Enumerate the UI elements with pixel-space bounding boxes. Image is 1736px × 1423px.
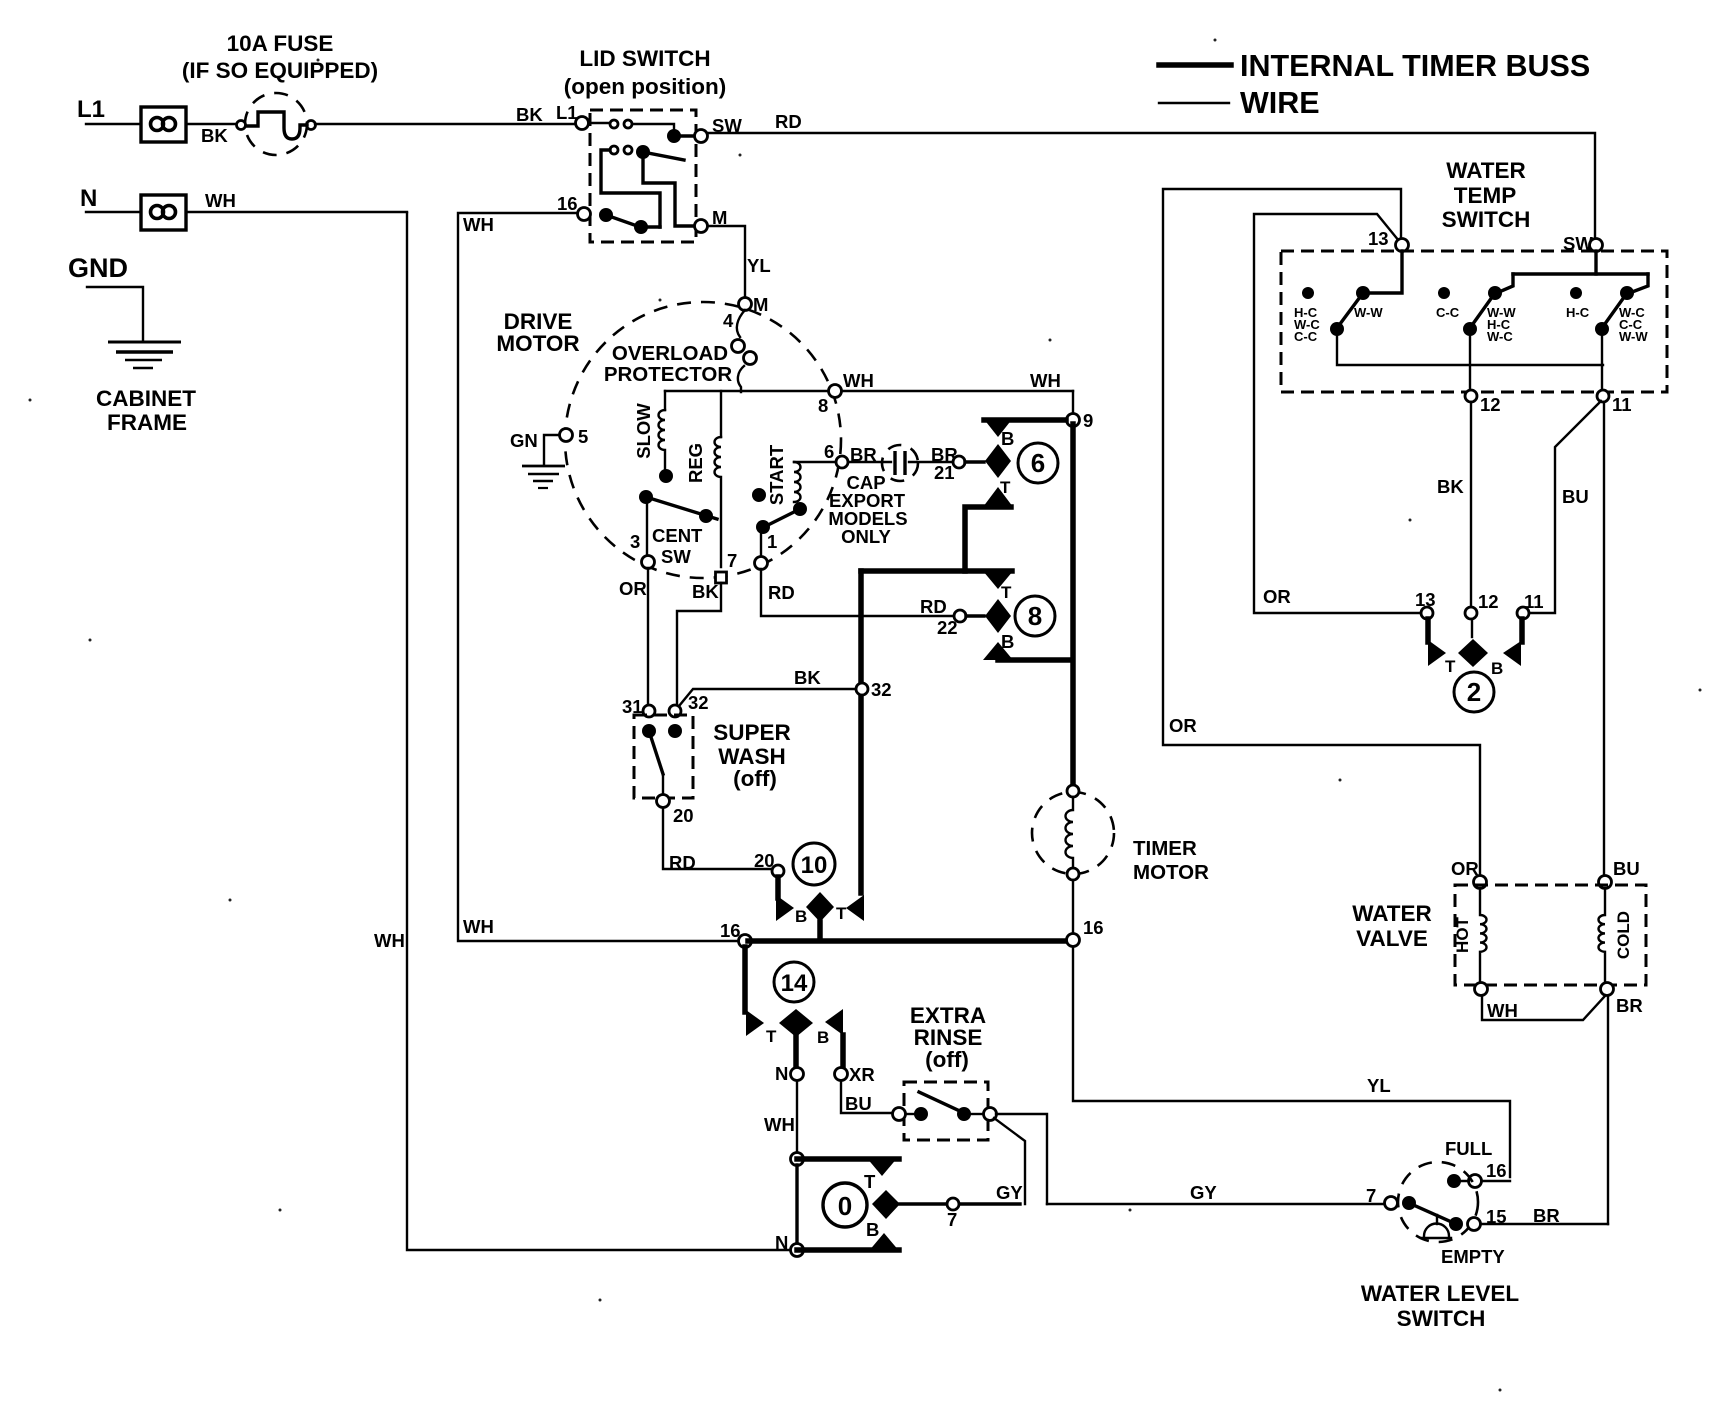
node 8 [829, 385, 842, 398]
svg-text:VALVE: VALVE [1356, 926, 1428, 951]
svg-text:W-W: W-W [1354, 305, 1383, 320]
wire BK to lid switch [315, 123, 576, 125]
svg-text:WH: WH [463, 214, 494, 235]
water valve box [1455, 885, 1646, 985]
svg-text:14: 14 [781, 970, 808, 997]
temp switch section 1 [1302, 286, 1603, 365]
solenoid COLD [1599, 888, 1614, 996]
svg-text:CABINET: CABINET [96, 386, 196, 411]
node 7 [947, 1198, 959, 1210]
node M terminal [695, 220, 708, 233]
temp switch section 3 [1570, 286, 1634, 390]
node 16 left [739, 935, 752, 948]
svg-text:RD: RD [920, 596, 947, 617]
wire to contact 6 [965, 460, 984, 463]
svg-text:16: 16 [1083, 917, 1104, 938]
svg-text:W-W: W-W [1619, 329, 1648, 344]
wire BU 11 to contact 2 [1529, 401, 1601, 613]
svg-text:BK: BK [1437, 476, 1464, 497]
wire WH corner to node 9 [1072, 391, 1074, 414]
wire BK 12 [1470, 402, 1472, 607]
contact 14 circle [774, 962, 814, 1002]
svg-text:BR: BR [1616, 995, 1643, 1016]
wire L1 lead [86, 123, 241, 125]
svg-text:L1: L1 [556, 102, 578, 123]
lid switch contact row 1 [589, 120, 694, 143]
node 16 terminal [578, 208, 591, 221]
svg-text:T: T [766, 1027, 777, 1046]
node 13 temp [1396, 239, 1409, 252]
lid switch box [590, 110, 696, 242]
svg-text:T: T [1445, 657, 1456, 676]
svg-text:BK: BK [201, 125, 228, 146]
svg-text:WATER: WATER [1352, 901, 1432, 926]
svg-text:L1: L1 [77, 96, 105, 123]
node BU valve [1599, 876, 1612, 889]
svg-text:N: N [775, 1232, 788, 1253]
svg-text:YL: YL [747, 255, 771, 276]
drive motor boundary circle [565, 302, 841, 578]
wire RD from start [761, 569, 954, 616]
svg-text:B: B [817, 1028, 829, 1047]
internal timer buss bottom [748, 938, 1073, 944]
winding START [793, 462, 837, 516]
wire OR inner loop [1254, 214, 1421, 613]
svg-text:T: T [1000, 478, 1011, 497]
svg-text:11: 11 [1612, 394, 1632, 415]
wire BK 32 diagonal [679, 689, 856, 706]
timer contact 14 [745, 947, 843, 1068]
svg-text:WH: WH [374, 930, 405, 951]
svg-text:32: 32 [871, 679, 892, 700]
svg-text:N: N [775, 1063, 788, 1084]
wire WH second vertical [458, 213, 739, 941]
wire XR to BU [841, 1081, 893, 1113]
winding REG [715, 391, 722, 567]
wire BU 11 to valve [1603, 402, 1605, 876]
wire YL to node 16 [1482, 1180, 1510, 1182]
svg-text:WH: WH [205, 190, 236, 211]
svg-text:RD: RD [775, 111, 802, 132]
svg-text:WH: WH [463, 916, 494, 937]
svg-text:6: 6 [1031, 448, 1045, 478]
svg-text:(off): (off) [925, 1047, 969, 1072]
node SW terminal [695, 130, 708, 143]
svg-text:OR: OR [1169, 715, 1197, 736]
overload protector [732, 310, 757, 392]
water level switch contacts [1402, 1174, 1469, 1238]
svg-text:COLD: COLD [1614, 911, 1633, 959]
wire RD super wash [663, 808, 771, 869]
legend buss sample [1159, 62, 1231, 68]
wire YL run [1073, 947, 1510, 1177]
timer contact 8 [983, 571, 1070, 660]
node 6 [836, 456, 848, 468]
svg-text:BU: BU [1562, 486, 1589, 507]
svg-text:ONLY: ONLY [841, 526, 891, 547]
contact 6 circle [1018, 443, 1058, 483]
svg-text:OR: OR [1451, 858, 1479, 879]
wire GND [87, 287, 143, 341]
timer contact 10 [772, 865, 864, 938]
svg-text:RD: RD [768, 582, 795, 603]
temp switch section 2 [1438, 286, 1502, 390]
svg-text:SLOW: SLOW [633, 403, 654, 459]
svg-text:GY: GY [996, 1182, 1023, 1203]
lid switch contact row 2 [601, 145, 694, 227]
svg-text:WH: WH [1487, 1000, 1518, 1021]
svg-text:XR: XR [849, 1064, 875, 1085]
svg-text:BK: BK [516, 104, 543, 125]
wire extra rinse out right [996, 1114, 1047, 1204]
svg-text:H-C: H-C [1566, 305, 1590, 320]
wire GY right [1047, 1203, 1385, 1205]
svg-text:WH: WH [843, 370, 874, 391]
timer contact 6 [965, 418, 1066, 571]
node 7 level [1385, 1197, 1398, 1210]
svg-text:21: 21 [934, 462, 955, 483]
svg-text:C-C: C-C [1436, 305, 1460, 320]
node 22 [954, 610, 966, 622]
svg-text:12: 12 [1478, 591, 1499, 612]
fuse F1 10A [237, 93, 316, 155]
temp switch section 1 feed [1369, 251, 1402, 293]
centrifugal switch [639, 490, 717, 556]
timer contact 0 [797, 1157, 900, 1252]
svg-text:SUPER: SUPER [713, 720, 791, 745]
svg-text:13: 13 [1368, 228, 1389, 249]
svg-text:(open position): (open position) [564, 74, 726, 99]
connector plug L1 [141, 107, 186, 142]
ground cabinet frame [108, 342, 181, 368]
node 1 [755, 557, 768, 570]
svg-text:INTERNAL TIMER BUSS: INTERNAL TIMER BUSS [1240, 49, 1590, 83]
svg-text:2: 2 [1467, 677, 1481, 707]
node 9 [1067, 414, 1080, 427]
internal timer buss horizontal [861, 568, 1012, 574]
wire BK from node 7 [677, 583, 721, 704]
wire N lead [86, 211, 141, 213]
wire N thick segment [795, 1165, 798, 1244]
node 32 [669, 705, 681, 717]
svg-text:7: 7 [727, 550, 737, 571]
svg-text:20: 20 [673, 805, 694, 826]
wire WH valve link [1482, 996, 1605, 1020]
svg-text:WATER LEVEL: WATER LEVEL [1361, 1281, 1520, 1306]
svg-text:TIMER: TIMER [1133, 837, 1197, 860]
svg-text:SW: SW [661, 546, 691, 567]
svg-text:GND: GND [68, 253, 128, 283]
svg-text:(off): (off) [733, 766, 777, 791]
timer contact 2 [1428, 619, 1522, 667]
svg-text:BU: BU [845, 1093, 872, 1114]
ground GN [522, 466, 565, 488]
svg-text:T: T [1001, 583, 1012, 602]
wire GN ground lead [544, 435, 559, 464]
svg-text:B: B [795, 907, 807, 926]
svg-text:1: 1 [767, 531, 777, 552]
node XR [835, 1068, 848, 1081]
svg-text:32: 32 [688, 692, 709, 713]
svg-text:7: 7 [1366, 1185, 1376, 1206]
extra rinse switch [893, 1092, 997, 1121]
node M motor [739, 298, 752, 311]
svg-text:8: 8 [1028, 601, 1042, 631]
wire node22 to diamond [966, 614, 984, 617]
wire OR from node 3 [647, 568, 649, 704]
svg-text:WATER: WATER [1446, 158, 1526, 183]
svg-text:GY: GY [1190, 1182, 1217, 1203]
wire N to corner [186, 211, 407, 213]
node 5 GN [560, 429, 573, 442]
wire OR outer loop [1163, 189, 1480, 876]
wire M to motor [708, 226, 745, 298]
svg-text:11: 11 [1524, 591, 1544, 612]
contact 10 circle [793, 843, 835, 885]
node 12 temp [1465, 390, 1477, 402]
svg-text:10A FUSE: 10A FUSE [227, 31, 334, 56]
svg-text:6: 6 [824, 441, 834, 462]
node 16 level [1469, 1175, 1482, 1188]
svg-text:B: B [866, 1219, 879, 1240]
lid switch contact row 3 [599, 208, 660, 234]
svg-text:WH: WH [764, 1114, 795, 1135]
node 7 square [716, 572, 727, 583]
svg-text:B: B [1491, 659, 1503, 678]
svg-text:13: 13 [1415, 589, 1436, 610]
wire BR level [1481, 1223, 1608, 1225]
svg-text:FRAME: FRAME [107, 410, 187, 435]
svg-text:HOT: HOT [1453, 916, 1472, 953]
node L1 terminal [576, 117, 589, 130]
node 20 [657, 795, 670, 808]
svg-text:WH: WH [1030, 370, 1061, 391]
super wash box [634, 715, 693, 798]
temp switch SW bus [1499, 251, 1648, 292]
contact 0 circle [823, 1183, 867, 1227]
capacitor CAP [848, 445, 953, 481]
svg-text:CENT: CENT [652, 525, 703, 546]
svg-text:W-C: W-C [1487, 329, 1513, 344]
svg-text:8: 8 [818, 395, 828, 416]
svg-text:9: 9 [1083, 410, 1093, 431]
node junction contact 0 top [791, 1153, 804, 1166]
extra rinse box [904, 1082, 988, 1140]
connector plug N [141, 195, 186, 230]
svg-text:YL: YL [1367, 1075, 1391, 1096]
svg-text:0: 0 [838, 1191, 852, 1221]
water temp switch box [1281, 251, 1667, 392]
node 11 connector [1517, 607, 1529, 619]
node 15 [1468, 1218, 1481, 1231]
wire BR down [1607, 996, 1609, 1224]
node 13 connector [1421, 607, 1433, 619]
svg-text:RD: RD [669, 852, 696, 873]
node 32 right [856, 683, 868, 695]
temp switch section 2 labels [1436, 305, 1516, 344]
svg-text:16: 16 [557, 193, 578, 214]
svg-text:B: B [1001, 631, 1014, 652]
svg-text:T: T [864, 1171, 876, 1192]
svg-text:N: N [80, 185, 97, 212]
svg-text:T: T [836, 904, 847, 923]
svg-text:SWITCH: SWITCH [1397, 1306, 1486, 1331]
node OR valve [1474, 876, 1487, 889]
node 3 [642, 556, 655, 569]
svg-text:C-C: C-C [1294, 329, 1318, 344]
svg-text:LID SWITCH: LID SWITCH [579, 46, 710, 71]
svg-text:22: 22 [937, 617, 958, 638]
svg-text:16: 16 [1486, 1160, 1507, 1181]
solenoid HOT [1475, 888, 1488, 996]
node 31 [643, 705, 655, 717]
water level switch circle [1398, 1162, 1478, 1242]
svg-text:12: 12 [1480, 394, 1501, 415]
temp switch section 1 labels [1294, 305, 1383, 344]
svg-text:OR: OR [1263, 586, 1291, 607]
wire WH motor bus [665, 390, 1073, 392]
svg-text:BK: BK [692, 581, 719, 602]
svg-text:5: 5 [578, 426, 588, 447]
node 16 right [1067, 934, 1080, 947]
svg-text:MOTOR: MOTOR [1133, 861, 1209, 884]
timer motor [1032, 785, 1114, 933]
node 11 temp [1597, 390, 1609, 402]
node N [791, 1068, 804, 1081]
svg-text:GN: GN [510, 430, 538, 451]
wire RD top run [708, 133, 1595, 239]
node 12 connector [1465, 607, 1477, 619]
start switch [752, 488, 800, 557]
svg-text:16: 16 [720, 920, 741, 941]
svg-text:OR: OR [619, 578, 647, 599]
node SW temp [1590, 239, 1603, 252]
winding SLOW [659, 391, 674, 483]
svg-text:BK: BK [794, 667, 821, 688]
internal timer buss right vertical [1070, 424, 1076, 787]
svg-text:FULL: FULL [1445, 1138, 1492, 1159]
svg-text:SWITCH: SWITCH [1442, 207, 1531, 232]
svg-text:START: START [766, 444, 787, 505]
internal timer buss vertical left [858, 571, 864, 893]
svg-text:BU: BU [1613, 858, 1640, 879]
wire GY left [900, 1202, 1020, 1205]
svg-text:3: 3 [630, 531, 640, 552]
svg-text:REG: REG [685, 443, 706, 483]
wire extra rinse out diagonal [994, 1118, 1025, 1204]
svg-text:OVERLOAD: OVERLOAD [612, 342, 728, 365]
svg-text:MOTOR: MOTOR [496, 331, 579, 356]
svg-text:10: 10 [801, 852, 828, 879]
svg-text:PROTECTOR: PROTECTOR [604, 363, 733, 386]
svg-text:TEMP: TEMP [1454, 183, 1517, 208]
contact 8 circle [1015, 596, 1055, 636]
svg-text:7: 7 [947, 1209, 957, 1230]
node N bottom [791, 1244, 804, 1257]
svg-text:4: 4 [723, 310, 734, 331]
node 21 [953, 456, 965, 468]
svg-text:EMPTY: EMPTY [1441, 1246, 1505, 1267]
svg-text:B: B [1001, 428, 1014, 449]
temp switch section 3 labels [1566, 305, 1648, 344]
wire N down [796, 1081, 798, 1153]
super wash switch [642, 724, 682, 795]
contact 2 circle [1454, 672, 1494, 712]
svg-text:(IF SO EQUIPPED): (IF SO EQUIPPED) [182, 58, 378, 83]
wire WH long vertical left [407, 213, 791, 1250]
svg-text:WIRE: WIRE [1240, 86, 1320, 120]
legend wire sample [1159, 102, 1229, 104]
